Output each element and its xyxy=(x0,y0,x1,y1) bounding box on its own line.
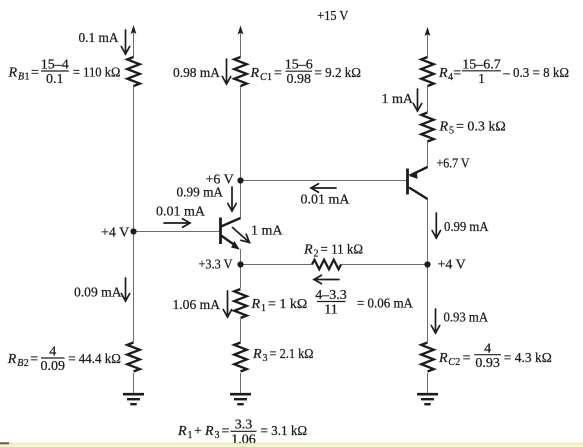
svg-text:0.1: 0.1 xyxy=(46,72,64,87)
svg-text:+6.7 V: +6.7 V xyxy=(437,157,470,172)
svg-text:1.06 mA: 1.06 mA xyxy=(173,298,221,313)
svg-text:= 2.1 kΩ: = 2.1 kΩ xyxy=(270,347,314,362)
svg-text:0.93: 0.93 xyxy=(475,356,500,371)
svg-text:15–4: 15–4 xyxy=(41,57,69,72)
svg-text:0.01 mA: 0.01 mA xyxy=(301,193,351,208)
svg-text:– 0.3 = 8 kΩ: – 0.3 = 8 kΩ xyxy=(502,66,569,81)
svg-text:R: R xyxy=(252,347,262,362)
svg-text:2: 2 xyxy=(455,357,460,368)
svg-text:+4 V: +4 V xyxy=(101,226,129,241)
svg-text:5: 5 xyxy=(449,126,454,137)
svg-text:=: = xyxy=(30,352,38,367)
svg-text:=: = xyxy=(453,66,461,81)
svg-text:0.09: 0.09 xyxy=(40,359,65,374)
svg-text:= 44.4 kΩ: = 44.4 kΩ xyxy=(68,352,121,367)
svg-text:0.1 mA: 0.1 mA xyxy=(79,31,120,46)
svg-text:2: 2 xyxy=(314,249,319,260)
svg-text:2: 2 xyxy=(24,358,29,369)
svg-text:0.01 mA: 0.01 mA xyxy=(156,205,206,220)
svg-text:1: 1 xyxy=(188,430,193,441)
svg-text:= 0.06 mA: = 0.06 mA xyxy=(357,297,414,312)
svg-text:1: 1 xyxy=(478,72,485,87)
svg-text:= 9.2 kΩ: = 9.2 kΩ xyxy=(315,66,362,81)
svg-text:=: = xyxy=(463,351,471,366)
svg-text:3: 3 xyxy=(215,430,220,441)
svg-text:=: = xyxy=(274,66,282,81)
svg-text:= 3.1 kΩ: = 3.1 kΩ xyxy=(261,424,308,439)
svg-text:3: 3 xyxy=(263,353,268,364)
svg-text:+4 V: +4 V xyxy=(438,258,466,273)
svg-text:1: 1 xyxy=(261,303,266,314)
svg-text:1 mA: 1 mA xyxy=(382,92,414,107)
svg-text:R: R xyxy=(8,66,18,81)
svg-text:C: C xyxy=(260,72,267,83)
svg-text:R: R xyxy=(438,351,448,366)
svg-text:R: R xyxy=(439,120,449,135)
svg-text:R: R xyxy=(250,66,260,81)
svg-text:0.99 mA: 0.99 mA xyxy=(444,220,489,235)
svg-text:0.99 mA: 0.99 mA xyxy=(177,186,224,201)
svg-text:0.98: 0.98 xyxy=(286,72,311,87)
svg-text:B: B xyxy=(18,72,24,83)
svg-text:= 11 kΩ: = 11 kΩ xyxy=(321,243,364,258)
svg-text:15–6: 15–6 xyxy=(285,57,313,72)
svg-text:4–3.3: 4–3.3 xyxy=(315,288,347,303)
svg-text:B: B xyxy=(17,358,23,369)
svg-text:= 0.3 kΩ: = 0.3 kΩ xyxy=(456,120,506,135)
svg-text:C: C xyxy=(448,357,455,368)
svg-text:0.98 mA: 0.98 mA xyxy=(173,66,221,81)
svg-text:= 1 kΩ: = 1 kΩ xyxy=(268,297,307,312)
svg-text:3.3: 3.3 xyxy=(235,417,253,432)
svg-text:+: + xyxy=(194,424,202,439)
svg-text:R: R xyxy=(177,424,187,439)
svg-text:R: R xyxy=(438,66,448,81)
svg-text:15–6.7: 15–6.7 xyxy=(462,57,501,72)
svg-text:+3.3 V: +3.3 V xyxy=(199,258,233,273)
svg-text:1: 1 xyxy=(267,72,272,83)
svg-text:0.93 mA: 0.93 mA xyxy=(444,311,489,326)
svg-text:1: 1 xyxy=(25,72,30,83)
svg-text:R: R xyxy=(204,424,214,439)
svg-text:+15 V: +15 V xyxy=(317,9,348,24)
svg-text:4: 4 xyxy=(484,341,491,356)
svg-text:R: R xyxy=(251,297,261,312)
svg-text:=: = xyxy=(222,424,230,439)
svg-text:4: 4 xyxy=(49,344,56,359)
svg-text:1 mA: 1 mA xyxy=(251,224,283,239)
svg-text:R: R xyxy=(7,352,17,367)
svg-text:11: 11 xyxy=(324,302,337,317)
svg-text:=: = xyxy=(31,66,39,81)
svg-text:R: R xyxy=(303,243,313,258)
svg-text:= 4.3 kΩ: = 4.3 kΩ xyxy=(504,351,552,366)
svg-text:= 110 kΩ: = 110 kΩ xyxy=(73,66,121,81)
svg-text:0.09 mA: 0.09 mA xyxy=(74,286,122,301)
